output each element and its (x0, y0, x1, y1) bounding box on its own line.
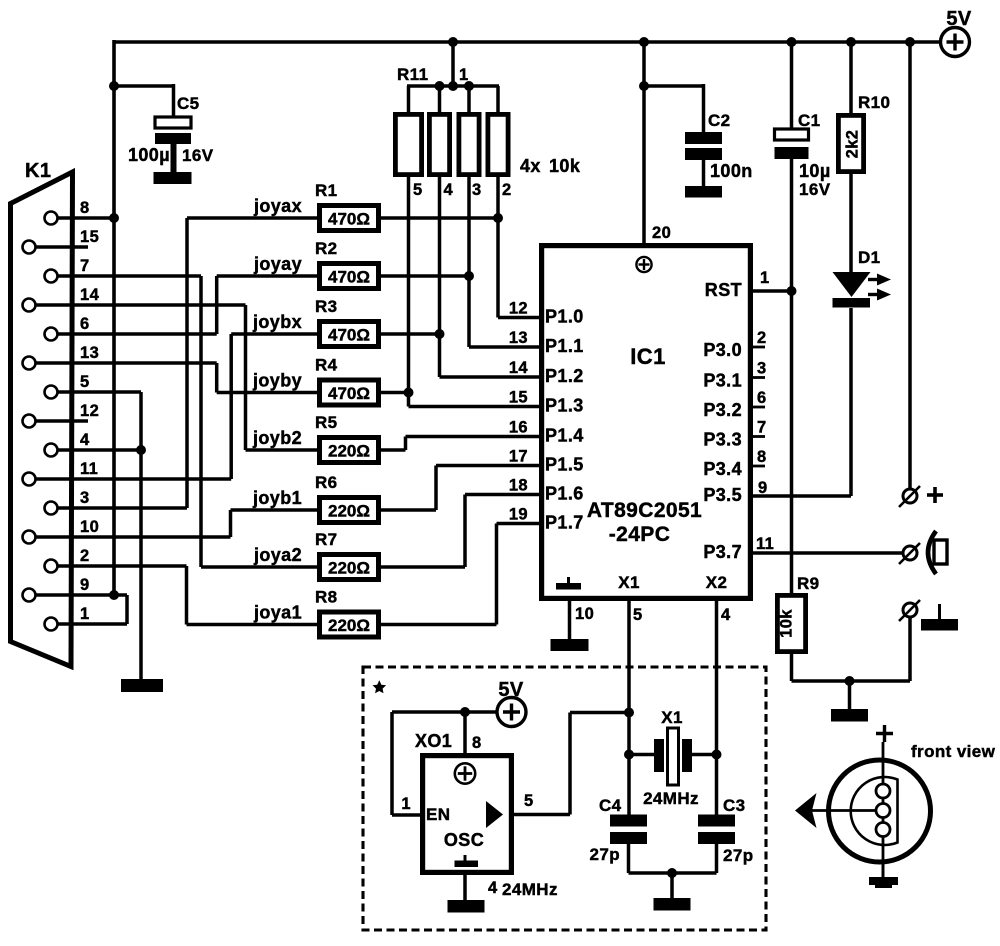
star mark (373, 680, 387, 693)
wire RST to R9 (790, 291, 794, 593)
svg-text:P1.3: P1.3 (545, 396, 584, 416)
resistor R6 220Ω (317, 495, 381, 525)
node crystal right junction (712, 750, 722, 760)
svg-text:joya2: joya2 (253, 545, 302, 565)
svg-text:3: 3 (757, 360, 767, 378)
svg-text:220Ω: 220Ω (328, 442, 370, 461)
svg-text:AT89C2051: AT89C2051 (587, 499, 702, 522)
svg-text:joyb1: joyb1 (252, 488, 302, 508)
wire ground vertical under K1 (139, 392, 143, 680)
node C2 branch (639, 81, 649, 91)
node caps ground (667, 868, 677, 878)
svg-text:R5: R5 (315, 413, 338, 432)
IC1 pin 6 P3.2 stub (751, 406, 765, 409)
svg-text:P3.0: P3.0 (703, 340, 742, 360)
svg-text:11: 11 (80, 460, 98, 478)
svg-text:R11: R11 (397, 65, 428, 84)
svg-text:R6: R6 (315, 473, 338, 492)
wire joyby net vertical (215, 363, 219, 393)
wire K1 pin15 stub (35, 245, 88, 249)
svg-text:4: 4 (488, 879, 498, 897)
svg-text:1: 1 (80, 605, 90, 623)
wire output ground down (908, 617, 912, 681)
svg-text:R10: R10 (858, 93, 890, 112)
ground lower right (831, 709, 868, 722)
svg-text:8: 8 (757, 448, 767, 466)
wire caps ground stub (670, 873, 674, 899)
IC1 pin 7 P3.3 stub (751, 435, 765, 438)
resistor R1 470Ω (317, 203, 381, 233)
wire joybx net vertical (229, 334, 233, 479)
svg-text:X2: X2 (706, 573, 728, 592)
wire D1 cathode to P3.5 (849, 308, 853, 496)
wire R7 out to P1.6 (381, 565, 465, 569)
K1 pin 9 (23, 589, 36, 602)
svg-text:12: 12 (80, 402, 99, 420)
node rail junction IC pin20 (639, 37, 649, 47)
svg-text:19: 19 (509, 506, 528, 524)
wire K1 pin14 (35, 303, 246, 307)
wire K1 pin5 to ground (57, 390, 141, 394)
svg-text:6: 6 (757, 389, 767, 407)
capacitor C4 27p (610, 815, 647, 827)
power symbol 5V oscillator (497, 698, 526, 727)
svg-text:5V: 5V (946, 8, 972, 30)
K1 pin 10 (23, 531, 36, 544)
K1 pin 12 (23, 415, 36, 428)
K1 pin 6 (45, 328, 58, 341)
wire XO1 pin8 (463, 712, 467, 753)
svg-text:8: 8 (80, 199, 90, 217)
wire C5 branch (114, 84, 174, 88)
node rail junction output+ (905, 37, 915, 47)
XO1 supply mark (455, 763, 475, 783)
wire joya1 into R8 (187, 623, 318, 627)
svg-text:3: 3 (80, 489, 90, 507)
wire R6 out to P1.5 (381, 508, 436, 512)
wire K1 pin7 (57, 274, 201, 278)
wire R10 to D1 (849, 174, 853, 273)
svg-text:100µ: 100µ (128, 145, 170, 165)
terminal output plus (903, 489, 917, 503)
svg-text:C5: C5 (177, 94, 200, 113)
IC1 pin 2 P3.0 stub (751, 346, 765, 349)
svg-text:15: 15 (509, 389, 528, 407)
svg-text:XO1: XO1 (415, 731, 452, 751)
svg-text:P1.0: P1.0 (545, 307, 584, 327)
svg-text:5V: 5V (498, 679, 524, 701)
svg-text:P1.4: P1.4 (545, 426, 584, 446)
resistor R7 220Ω (317, 552, 381, 582)
resistor R8 220Ω (317, 610, 381, 640)
K1 pin 3 (45, 502, 58, 515)
wire left 5V vertical bus (112, 40, 116, 595)
svg-text:R2: R2 (315, 239, 338, 258)
wire K1 pin4 to ground (57, 448, 141, 452)
svg-text:5: 5 (80, 373, 90, 391)
wire K1 pin12 stub (35, 419, 88, 423)
wire 5V top rail (114, 40, 940, 43)
node RST junction (787, 286, 797, 296)
wire R11 pin5 lead to P1.3 row (407, 177, 411, 407)
svg-text:14: 14 (509, 359, 529, 377)
svg-text:joyay: joyay (253, 254, 302, 274)
resistor R2 470Ω (317, 261, 381, 291)
svg-text:9: 9 (80, 576, 90, 594)
K1 pin 8 (45, 212, 58, 225)
K1 pin 4 (45, 444, 58, 457)
wire crystal right (692, 753, 717, 757)
node R3-R11.4 (435, 329, 445, 339)
front view connector inner outline (851, 777, 898, 845)
svg-text:10k: 10k (549, 156, 581, 176)
svg-text:joybx: joybx (252, 312, 302, 332)
IC1 internal ground pin 10 (556, 583, 581, 590)
svg-text:1: 1 (401, 795, 411, 813)
node R1-R11.2 (493, 213, 503, 223)
wire R11 pin4 lead to P1.2 row (438, 177, 442, 377)
svg-text:6: 6 (80, 315, 90, 333)
svg-text:EN: EN (426, 805, 450, 824)
svg-text:P3.1: P3.1 (703, 371, 742, 391)
svg-text:4: 4 (444, 181, 454, 199)
svg-text:K1: K1 (25, 160, 51, 182)
ground C2 (685, 186, 722, 198)
node R2-R11.3 (464, 271, 474, 281)
capacitor C3 27p (698, 815, 735, 827)
svg-text:R7: R7 (315, 530, 338, 549)
K1 pin 13 (23, 357, 36, 370)
wire joyb2 net vertical (244, 305, 248, 450)
svg-text:P1.6: P1.6 (545, 484, 584, 504)
ground XO1 (448, 900, 485, 913)
svg-text:joyax: joyax (253, 196, 302, 216)
svg-text:7: 7 (80, 257, 90, 275)
front view pin bottom (876, 823, 890, 837)
wire C1 bottom to RST (790, 159, 794, 291)
resistor R5 220Ω (317, 435, 381, 465)
svg-text:P1.1: P1.1 (545, 336, 584, 356)
crystal X1 24MHz (654, 739, 664, 772)
svg-text:IC1: IC1 (630, 344, 665, 369)
node R11 bus junctions (435, 81, 445, 91)
K1 pin 5 (45, 386, 58, 399)
svg-text:C1: C1 (798, 111, 821, 130)
capacitor C1 10u electrolytic (775, 129, 809, 140)
svg-text:10µ: 10µ (799, 161, 831, 181)
front view left arrow (795, 793, 817, 828)
svg-text:2: 2 (757, 329, 767, 347)
wire joya2 net vertical (199, 276, 203, 567)
node rail junction C1 (787, 37, 797, 47)
IC1 pin 8 P3.4 stub (751, 465, 765, 468)
front view pin middle (876, 804, 890, 818)
K1 pin 1 (45, 618, 58, 631)
svg-text:24MHz: 24MHz (502, 880, 558, 899)
ground IC1 pin10 (551, 639, 589, 651)
wire crystal left (629, 753, 654, 757)
wire joybx into R3 (231, 332, 317, 336)
resistor R3 470Ω (317, 319, 381, 349)
node crystal left junction (624, 750, 634, 760)
wire IC1 pin20 from rail (642, 42, 646, 243)
svg-text:100n: 100n (710, 161, 753, 181)
svg-text:C4: C4 (599, 796, 622, 815)
connector K1 DB15 body (11, 172, 73, 667)
wire R8 out to P1.7 (381, 623, 497, 627)
wire joyax into R1 (187, 216, 317, 220)
wire K1 pin13 (35, 361, 217, 365)
svg-text:2: 2 (80, 547, 90, 565)
wire joyb2 into R5 (246, 448, 318, 452)
ground C5 (154, 172, 192, 184)
front view connector wire vertical (882, 742, 885, 877)
wire K1 pin3 (57, 506, 187, 510)
svg-text:2: 2 (502, 181, 512, 199)
svg-text:P3.2: P3.2 (703, 400, 742, 420)
node pin9 5V (109, 590, 119, 600)
svg-text:470Ω: 470Ω (328, 326, 370, 345)
resistor network R11 4x10k (407, 86, 411, 114)
wire joyby into R4 (217, 391, 317, 395)
svg-text:8: 8 (472, 734, 482, 752)
wire joyay net vertical (215, 276, 219, 334)
LED D1 arrows (868, 278, 879, 281)
svg-text:P1.5: P1.5 (545, 455, 584, 475)
front view wire inside (882, 760, 885, 877)
svg-text:4x: 4x (520, 156, 541, 176)
wire R1 out to P1.0 (381, 216, 498, 220)
svg-text:joyby: joyby (252, 371, 302, 391)
wire XO1 top to 5V (465, 710, 498, 714)
svg-text:R1: R1 (315, 181, 338, 200)
wire joyb1 into R6 (231, 508, 318, 512)
wire R9 bottom (790, 654, 794, 681)
IC1 pin20 supply mark (636, 257, 651, 272)
wire RST to C1/R9 net (753, 289, 792, 293)
svg-text:RST: RST (705, 280, 742, 300)
K1 pin 7 (45, 270, 58, 283)
resistor R9 10k (775, 593, 808, 654)
svg-text:13: 13 (80, 344, 99, 362)
svg-text:24MHz: 24MHz (643, 789, 699, 808)
IC1 pin 3 P3.1 stub (751, 376, 765, 379)
wire ground bus lower right (792, 679, 911, 683)
svg-text:18: 18 (509, 477, 528, 495)
svg-text:16: 16 (509, 419, 528, 437)
wire R11 top bus (407, 84, 499, 88)
front view plus mark (876, 732, 893, 735)
svg-text:OSC: OSC (444, 830, 484, 850)
wire K1 pin2 (57, 564, 187, 568)
wire R4 out to P1.3 (381, 391, 409, 395)
svg-text:470Ω: 470Ω (328, 268, 370, 287)
svg-text:X1: X1 (618, 573, 640, 592)
wire joyax net vertical (185, 218, 189, 508)
wire K1 pin8 to 5V (57, 216, 114, 220)
K1 pin 2 (45, 560, 58, 573)
wire P3.7 to speaker output (753, 551, 903, 555)
wire K1 pin9 (35, 593, 127, 597)
svg-text:C3: C3 (723, 796, 746, 815)
wire ground stub (848, 681, 852, 710)
svg-text:10: 10 (575, 605, 594, 623)
svg-text:1: 1 (760, 269, 770, 287)
resistor R10 2k2 (836, 113, 866, 174)
wire joyb1 net vertical (229, 510, 233, 537)
wire R11 supply drop (451, 42, 455, 88)
svg-text:20: 20 (652, 224, 671, 242)
speaker symbol (928, 531, 936, 574)
svg-text:P3.7: P3.7 (703, 542, 742, 562)
wire R3 out to P1.2 (381, 332, 440, 336)
svg-text:joyb2: joyb2 (252, 428, 302, 448)
svg-text:P3.4: P3.4 (703, 459, 742, 479)
LED D1 (833, 272, 871, 297)
K1 pin 14 (23, 299, 36, 312)
svg-text:2k2: 2k2 (844, 130, 862, 159)
wire K1 pin1 (57, 622, 127, 626)
dashed box optional oscillator (363, 667, 766, 930)
wire joya1 net vertical (185, 566, 189, 625)
wire joyay into R2 (217, 274, 317, 278)
oscillator XO1 body (420, 753, 514, 875)
wire R10 top (849, 42, 853, 113)
node rail junction R11 (448, 37, 458, 47)
wire XO1 pin4 ground (463, 875, 467, 901)
node XTAL1 osc junction (624, 708, 634, 718)
wire C2 branch (644, 84, 704, 88)
svg-text:27p: 27p (590, 845, 621, 864)
svg-text:5: 5 (633, 606, 643, 624)
svg-text:P1.7: P1.7 (545, 513, 584, 533)
wire joya2 into R7 (201, 565, 317, 569)
svg-text:12: 12 (509, 300, 528, 318)
XO1 internal ground (455, 861, 479, 868)
wire R5 out to P1.4 (381, 448, 406, 452)
svg-text:R3: R3 (315, 297, 338, 316)
svg-text:13: 13 (509, 329, 528, 347)
svg-text:7: 7 (757, 419, 767, 437)
svg-text:11: 11 (756, 535, 774, 553)
K1 pin 15 (23, 241, 36, 254)
front view connector outer circle (829, 760, 931, 862)
node rail junction R10 (846, 37, 856, 47)
front view ground (869, 877, 898, 885)
svg-text:P1.2: P1.2 (545, 366, 584, 386)
svg-text:R9: R9 (797, 574, 820, 593)
wire R11 pin2 lead to P1.0 row (496, 177, 500, 318)
wire K1 pin9 to pin1 (125, 595, 129, 624)
svg-text:15: 15 (80, 228, 99, 246)
svg-text:D1: D1 (858, 248, 881, 267)
wire C3 bottom (715, 844, 719, 873)
svg-text:P3.5: P3.5 (703, 485, 742, 505)
svg-text:front view: front view (911, 742, 996, 761)
svg-text:4: 4 (721, 606, 731, 624)
wire IC1 pin4 X2 (715, 601, 719, 815)
node junction C5 branch (109, 81, 119, 91)
wire R11 pin3 lead to P1.1 row (467, 177, 471, 347)
XO1 output arrow (486, 801, 503, 828)
wire XO1 enable loop (392, 710, 465, 714)
wire IC1 pin10 to ground (568, 601, 572, 640)
svg-text:5: 5 (413, 181, 423, 199)
svg-text:14: 14 (80, 286, 100, 304)
ground symbol at output (938, 604, 941, 620)
svg-text:5: 5 (524, 792, 534, 810)
K1 pin 11 (23, 473, 36, 486)
svg-text:4: 4 (80, 431, 90, 449)
wire K1 pin10 (35, 535, 231, 539)
wire R2 out to P1.1 (381, 274, 469, 278)
svg-text:1: 1 (459, 66, 469, 84)
svg-text:X1: X1 (661, 708, 683, 727)
svg-text:16V: 16V (799, 180, 831, 199)
front view pin top (876, 784, 890, 798)
svg-text:220Ω: 220Ω (328, 616, 370, 635)
capacitor C5 electrolytic (155, 117, 191, 128)
svg-text:-24PC: -24PC (609, 523, 671, 546)
node ground junction (845, 676, 855, 686)
wire K1 pin6 (57, 332, 217, 336)
terminal output ground (903, 603, 917, 617)
node XO1 supply (460, 707, 470, 717)
svg-text:17: 17 (509, 448, 528, 466)
svg-text:3: 3 (472, 181, 482, 199)
ground K1 (121, 679, 163, 692)
terminal output speaker (903, 546, 917, 560)
capacitor C2 100n (685, 132, 722, 144)
wire K1 pin11 (35, 477, 231, 481)
svg-text:R4: R4 (315, 356, 338, 375)
wire C4 bottom (627, 844, 631, 873)
resistor R4 470Ω (317, 378, 381, 408)
svg-text:27p: 27p (723, 846, 754, 865)
wire caps ground bus (629, 871, 717, 875)
wire 5V to output+ (908, 42, 912, 489)
node pin8 5V (109, 213, 119, 223)
ground crystal caps (654, 898, 691, 911)
wire P3.5 to LED (753, 494, 851, 498)
svg-text:joya1: joya1 (253, 603, 302, 623)
node pin4 ground (136, 445, 146, 455)
svg-text:220Ω: 220Ω (328, 502, 370, 521)
svg-text:P3.3: P3.3 (703, 430, 742, 450)
svg-text:220Ω: 220Ω (328, 559, 370, 578)
power symbol 5V top right (941, 28, 970, 57)
wire C1 top (790, 42, 794, 129)
wire IC1 pin5 X1 (627, 601, 631, 815)
svg-text:10k: 10k (778, 609, 796, 638)
svg-text:C2: C2 (708, 111, 731, 130)
wire XO1 pin5 output (514, 813, 570, 817)
svg-text:16V: 16V (182, 146, 214, 165)
node R4-R11.5 (404, 388, 414, 398)
svg-text:470Ω: 470Ω (328, 210, 370, 229)
IC IC1 AT89C2051 body (539, 243, 753, 601)
svg-text:470Ω: 470Ω (328, 384, 370, 403)
svg-text:R8: R8 (315, 588, 338, 607)
svg-text:10: 10 (80, 518, 99, 536)
